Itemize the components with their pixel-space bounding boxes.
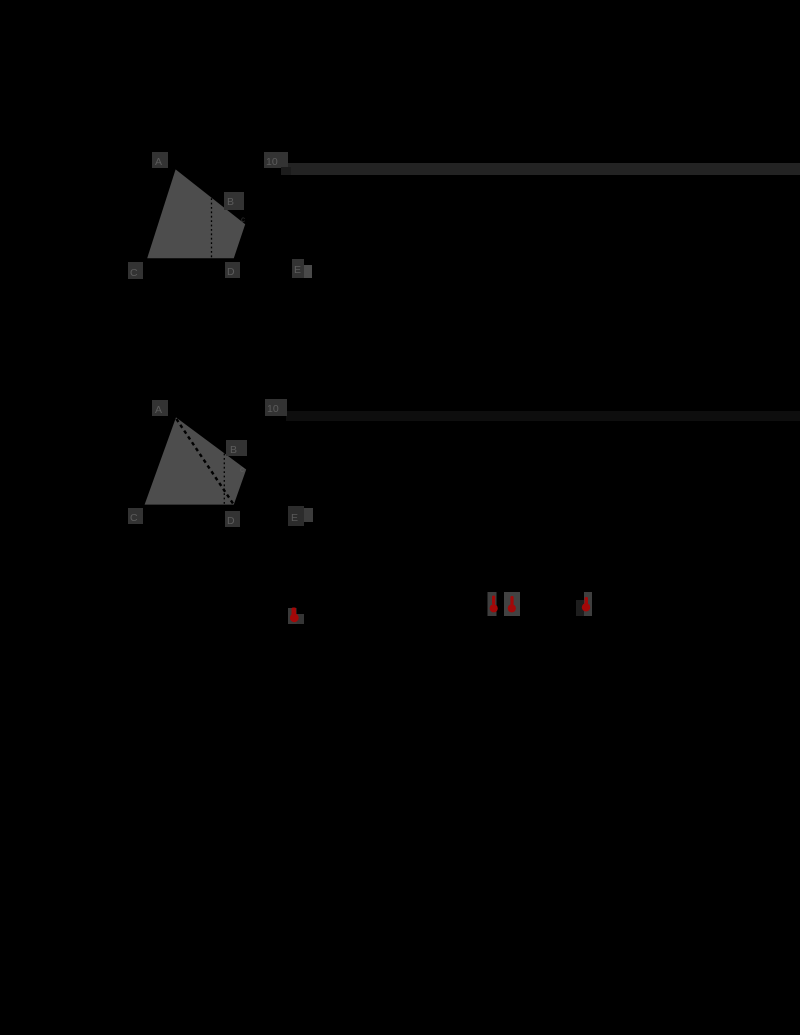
svg-text:c: c: [241, 215, 245, 224]
svg-text:c: c: [240, 465, 244, 474]
svg-text:A: A: [155, 156, 162, 168]
svg-text:E: E: [294, 264, 301, 276]
svg-text:D: D: [227, 266, 235, 278]
svg-text:E: E: [291, 512, 298, 524]
svg-text:10: 10: [266, 156, 278, 168]
svg-text:B: B: [227, 196, 234, 208]
svg-text:10: 10: [267, 403, 279, 415]
svg-text:C: C: [130, 267, 138, 279]
svg-text:B: B: [230, 444, 237, 456]
svg-text:C: C: [130, 512, 138, 524]
svg-text:A: A: [155, 404, 162, 416]
svg-text:D: D: [227, 515, 235, 527]
